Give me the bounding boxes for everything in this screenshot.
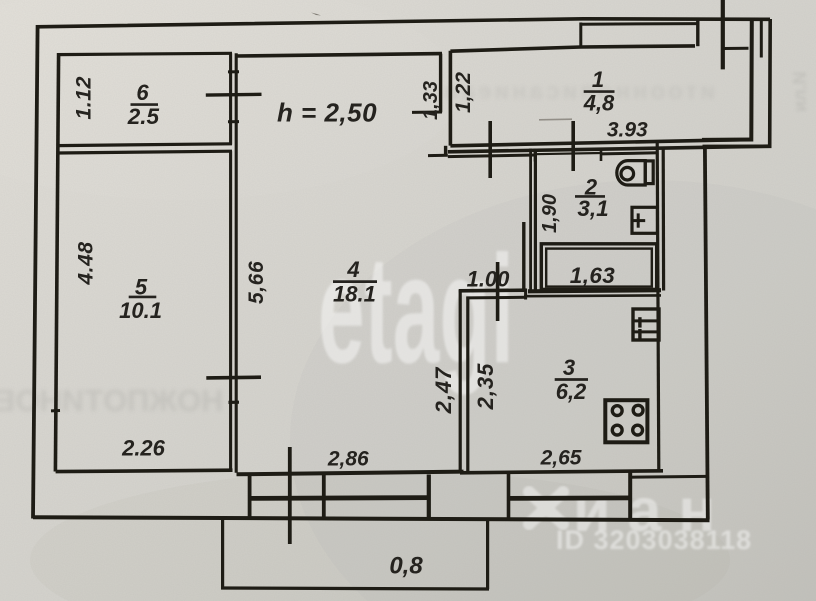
svg-text:4: 4 [346,257,359,282]
room4 bottom wall [237,472,464,475]
room5 room4 divider right line [235,153,238,473]
bleed-through text band top right [441,78,715,105]
hall right jamb wall [522,222,525,291]
bathtub outer [541,244,656,290]
room3 bar [555,378,588,381]
svg-text:2,65: 2,65 [540,447,582,470]
balcony bottom wall [221,588,489,589]
svg-text:ID 3203038118: ID 3203038118 [556,525,752,555]
toilet bowl circle [621,167,634,180]
corridor left wall H / room1 left [449,51,453,146]
svg-text:2,35: 2,35 [473,363,498,411]
vent tick 1 [638,317,641,327]
room6 door tick [206,93,262,97]
room2 left wall line a [529,149,532,291]
bathtub inner [546,249,652,287]
svg-text:3: 3 [563,355,575,380]
svg-text:5,66: 5,66 [245,261,268,304]
svg-text:0,8: 0,8 [389,553,423,580]
svg-text:1: 1 [592,67,604,92]
stove burner TL [612,406,622,416]
entry dim line D1 [721,0,725,69]
room1 right wall outer [703,19,771,146]
outer wall top main [36,19,770,27]
kitchen left wall inner [466,297,469,472]
svg-text:2,86: 2,86 [327,447,369,470]
room1 right wall inner [702,20,752,140]
room5 bottom wall [56,470,233,471]
room6 bottom wall upper [58,144,233,146]
vent inner line 1 [633,319,659,322]
svg-text:10.1: 10.1 [119,298,162,323]
faint scratch line room1 [539,118,572,121]
stove burner TR [633,405,643,415]
bleed-through marks right edge [790,72,810,113]
balcony right wall [486,521,489,589]
room4 door stub west [412,111,442,114]
svg-text:1.00: 1.00 [467,267,511,292]
stove square [605,400,647,442]
sink [632,207,657,233]
outer wall left [33,25,38,519]
kitchen door jamb [524,289,527,300]
room4 top right wall G [439,54,442,113]
svg-text:2.5: 2.5 [127,104,160,129]
room6 bar [131,103,159,106]
outer wall right lower [705,148,708,520]
room2 bottom wall thick [528,290,661,291]
kitchen vent box [633,309,659,340]
paper soft mottling [0,0,460,200]
kitchen step line right [630,475,707,479]
svg-text:6: 6 [136,80,149,105]
corridor room2 band L2 [448,146,770,152]
room2 right wall outer line [662,147,666,291]
room4 window glazing [248,495,429,501]
toilet bowl [617,161,645,185]
svg-text:4.48: 4.48 [74,241,97,285]
room4 top wall [236,54,442,56]
sink tap horizontal [632,219,645,222]
room4 bar [333,280,377,283]
svg-text:4,8: 4,8 [583,91,615,116]
room6 top wall [57,53,232,54]
kitchen window glazing [507,495,632,500]
room1 door stub [428,154,448,157]
room2 bar [575,195,605,198]
room1 bar [584,90,615,93]
svg-text:5: 5 [135,274,148,299]
hall bottom wall A [459,288,527,292]
room2 bottom wall lower line [524,294,661,297]
outer wall bottom [33,517,710,520]
bleed-through text band left [0,383,223,418]
svg-text:h = 2,50: h = 2,50 [277,98,377,128]
svg-text:2,47: 2,47 [431,366,456,415]
kitchen dim line D4 [496,262,500,321]
kitchen window left jamb [507,472,511,520]
svg-text:3.93: 3.93 [607,118,648,141]
svg-text:18.1: 18.1 [333,282,376,307]
niche top line [580,22,698,26]
svg-text:1,22: 1,22 [452,72,475,113]
room1 top inner wall [450,46,695,51]
niche right jamb [696,19,699,46]
toilet cistern [645,161,653,184]
hall corner jamb [444,146,447,157]
hall bottom wall B [466,296,526,300]
room6 right wall double lines [231,53,237,152]
room5 room4 divider left line [229,151,232,471]
dim line D2 [571,121,575,171]
room4 window jamb 3 [427,475,431,520]
svg-text:итооннописаниеав: итооннописаниеав [441,78,715,105]
left wall window tick [51,409,60,412]
room2 left wall line b [534,149,537,291]
entry door leaf [760,20,763,58]
room1 bottom inner L1 [450,139,752,145]
balcony dim line D5 [288,447,292,544]
svg-text:2.26: 2.26 [121,436,166,461]
room6 bottom wall lower / room5 top [58,151,233,153]
room2 kitchen right wall inner [657,141,659,472]
room4 window jamb 2 [322,474,326,520]
room6 door jamb ticks [228,72,239,122]
room5 door jamb tick [229,401,240,404]
kitchen window right jamb [628,472,632,520]
svg-text:1,33: 1,33 [420,81,442,120]
balcony left wall [221,520,224,589]
svg-text:1,63: 1,63 [570,263,615,288]
dim line D3 [488,121,492,178]
watermark cian logo [529,492,563,524]
vent tick 2 [638,329,641,339]
entry niche tick [724,47,749,50]
sink tap vertical [637,213,640,227]
svg-text:ил.N: ил.N [790,72,810,113]
room2 door line [535,153,601,154]
left wall inner face [55,53,58,472]
room2 door jambs [535,148,601,162]
svg-text:6,2: 6,2 [556,379,587,404]
room5 bar [129,296,157,299]
svg-text:3,1: 3,1 [577,196,608,221]
svg-text:1.12: 1.12 [72,76,96,119]
paper speck top [311,13,321,16]
stove burner BL [612,425,622,435]
kitchen bottom wall [460,471,663,473]
vent inner line 2 [633,330,659,333]
room2 top inner L3 segments [448,153,659,157]
kitchen left wall outer [459,290,462,473]
room5 door tick [206,375,261,379]
svg-text:1,90: 1,90 [539,194,561,233]
stove burner BR [633,425,643,435]
niche left jamb [579,23,582,48]
room4 window jamb 1 [248,474,252,520]
